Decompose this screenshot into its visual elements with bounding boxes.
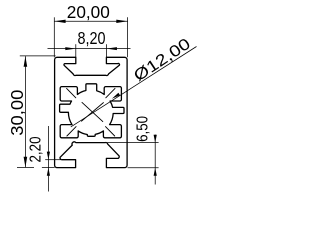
arrow 20,00 left: [54, 20, 65, 23]
arrow 8,20 right: [106, 47, 117, 50]
arrow 2,20 bottom: [47, 168, 50, 176]
arrow 30,00 bottom: [24, 157, 28, 168]
arrow 6,50 top: [154, 135, 157, 143]
leader line dia 12: [71, 47, 197, 127]
X mark leg 2: [82, 103, 104, 122]
ext line 20,00 left: [53, 17, 55, 57]
ext line 2,20 bottom: [42, 167, 55, 169]
ext line 30,00 bottom: [17, 167, 34, 169]
arrow 30,00 top: [24, 56, 28, 66]
svg-text:Ø12,00: Ø12,00: [131, 35, 194, 85]
ext line 6,50 bottom: [128, 167, 159, 169]
svg-text:6,50: 6,50: [134, 116, 151, 142]
svg-text:30,00: 30,00: [7, 89, 27, 135]
arrow 20,00 right: [116, 20, 127, 23]
svg-text:8,20: 8,20: [78, 28, 106, 48]
ext line 30,00 top: [20, 55, 56, 57]
corner chamfer diagonal bottom-left: [67, 127, 76, 136]
central cavity: circle with tabs and corner squares: [60, 84, 124, 138]
ext line 20,00 right: [127, 17, 129, 57]
ext line 2,20 top: [45, 159, 61, 161]
profile outer outline with top T-slot and bottom slot: [55, 57, 128, 167]
arrow 6,50 bottom: [154, 168, 157, 176]
ext line 8,20 right: [105, 44, 107, 57]
svg-text:2,20: 2,20: [28, 136, 45, 162]
dim 2,20 line: [47, 126, 49, 192]
dim 6,50 line: [154, 135, 156, 185]
corner chamfer diagonal top-left: [67, 88, 76, 97]
dim 30,00 line: [24, 56, 26, 167]
ext line 6,50 top (web): [104, 142, 159, 144]
corner chamfer diagonal bottom-right: [106, 127, 115, 136]
corner chamfer diagonal top-right: [106, 88, 115, 97]
svg-text:20,00: 20,00: [67, 2, 110, 22]
X mark leg 1: [82, 102, 103, 121]
ext line 8,20 left: [75, 44, 77, 57]
dim 8,20 line: [48, 48, 131, 50]
arrow 2,20 top: [47, 152, 50, 160]
arrow 8,20 left: [65, 47, 76, 50]
arrow dia 12 leader: [112, 93, 120, 99]
dim 20,00 line: [54, 20, 127, 22]
